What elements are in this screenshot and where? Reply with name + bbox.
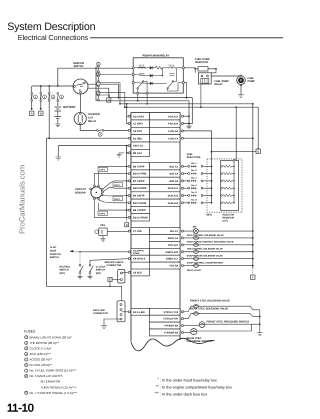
svg-text:VTPSWR B3: VTPSWR B3: [164, 331, 179, 334]
svg-text:NTSW: NTSW: [133, 252, 140, 255]
wire ECM FLR1 to injector supply bus: [183, 131, 211, 203]
relay right terminals: [182, 67, 184, 69]
wire ignition switch output A: [88, 84, 119, 97]
fuse 7: [96, 85, 98, 87]
svg-text:B14 CYP/M: B14 CYP/M: [133, 173, 146, 176]
svg-text:PCS A21: PCS A21: [168, 244, 179, 247]
node IGP1 terminal: [128, 115, 130, 117]
svg-text:No. 3: No. 3: [191, 177, 197, 180]
capacitor relay 2: [169, 74, 174, 76]
svg-text:B9 LG2: B9 LG2: [133, 152, 142, 155]
svg-text:Electrical Connections: Electrical Connections: [18, 33, 89, 42]
wire relay right mid terminal down to L1: [184, 83, 186, 98]
wire fuse 9 to ECM STS: [104, 129, 129, 131]
capacitor relay 1: [139, 74, 144, 76]
svg-text:B: B: [40, 111, 42, 115]
node K-LINE terminal: [128, 311, 130, 313]
wire SCS to ECM: [122, 271, 129, 273]
svg-text:FRONT VTEC PRESSURE SWITCH: FRONT VTEC PRESSURE SWITCH: [207, 321, 250, 324]
fuse number 8: [97, 91, 100, 94]
svg-text:2WBS A17: 2WBS A17: [166, 258, 179, 261]
svg-text:A26 LG1: A26 LG1: [133, 145, 144, 148]
svg-text:ALTERNATOR: ALTERNATOR: [41, 380, 62, 384]
ECM group3 right pin cells: [150, 228, 181, 235]
relay bottom terminals: [137, 92, 139, 94]
svg-text:CKP 1: CKP 1: [114, 198, 121, 201]
svg-text:POSITION: POSITION: [50, 253, 61, 256]
svg-text:: In the under-hood fuse/relay: : In the under-hood fuse/relay box: [160, 378, 217, 382]
svg-text:No. 1: No. 1: [191, 162, 197, 165]
svg-text:MIL A7: MIL A7: [170, 230, 178, 233]
svg-text:C7 VSS: C7 VSS: [133, 230, 142, 233]
connector F at solenoid bus end: [252, 268, 254, 275]
wire starter signal ST: [80, 94, 82, 113]
wire fuse 6 output: [98, 83, 120, 104]
svg-text:F: F: [252, 275, 254, 279]
wire bus L4: [125, 106, 258, 108]
ground fuel pump: [240, 85, 242, 95]
svg-text:INJ3 A5: INJ3 A5: [169, 180, 178, 183]
relay coil 2: [169, 67, 176, 69]
node VTSOLF terminal: [181, 311, 183, 313]
svg-text:IG1: IG1: [80, 85, 83, 88]
svg-text:SWITCH: SWITCH: [60, 269, 69, 272]
wire bus L3: [120, 103, 253, 105]
svg-text:To A/T: To A/T: [50, 246, 57, 249]
resistor injector resistor element 6: [221, 202, 223, 204]
diode D3: [150, 82, 153, 85]
svg-text:INJ2 A3: INJ2 A3: [169, 173, 178, 176]
svg-text:No. 5 BACK-UP LIGHTS: No. 5 BACK-UP LIGHTS: [30, 374, 63, 378]
svg-text:VTSOLF F19: VTSOLF F19: [164, 311, 179, 314]
wire CKP2 pair: [103, 181, 129, 189]
ECM group4 right pin cells: [150, 308, 181, 315]
fuse number 9: [98, 132, 102, 136]
ECM group3 left pin cells: [131, 228, 150, 235]
node PG2-A24 terminal: [181, 122, 183, 124]
svg-text:(M/T): (M/T): [207, 214, 213, 217]
motor fuel pump: [237, 76, 246, 85]
ECM group4 left pin cell D4 K-LINE: [131, 308, 150, 315]
svg-text:PRESSURE SWITCH: PRESSURE SWITCH: [187, 340, 212, 343]
svg-text:PG2 A10: PG2 A10: [168, 115, 179, 118]
svg-text:VTSOLR F20: VTSOLR F20: [163, 318, 178, 321]
diode D1: [150, 66, 153, 69]
svg-text:RESISTOR: RESISTOR: [223, 217, 235, 220]
fuse number 3: [51, 95, 55, 99]
svg-text:THL MOTOR (20 A)/**: THL MOTOR (20 A)/**: [30, 341, 60, 345]
label CYP 2: [98, 211, 107, 215]
wire fuse 8 output feeds bus L1: [98, 95, 118, 98]
svg-text:INJ4 A14: INJ4 A14: [168, 187, 179, 190]
svg-text:(M/T): (M/T): [60, 272, 66, 275]
wire ignition feed to PGM-FI relay: [58, 68, 133, 86]
node INJ3 terminal: [181, 180, 183, 182]
IC U1 ECM engine control module box: [131, 113, 180, 342]
svg-text:No. 2 FUEL PUMP SRS2 (15 A)/**: No. 2 FUEL PUMP SRS2 (15 A)/***: [30, 369, 78, 373]
wire interlock line to data link connector: [46, 286, 121, 301]
node solenoid terminal 3: [181, 251, 183, 253]
wire injector No. 1 leads: [183, 165, 187, 167]
ground power grounds PG: [188, 124, 190, 127]
svg-text:GEAR: GEAR: [50, 249, 57, 252]
ECM group2 right pin cells: [150, 163, 181, 170]
resistor injector resistor element 3: [221, 180, 223, 182]
svg-text:NEUTRAL: NEUTRAL: [60, 265, 72, 268]
label CKP 2: [113, 182, 122, 186]
connector shield 2P: [126, 219, 128, 223]
relay contact 2: [168, 82, 172, 87]
node LG1 terminal: [128, 145, 130, 147]
wire bus L2: [96, 100, 189, 102]
relay internal wires: [134, 67, 150, 69]
svg-text:PG2 A24: PG2 A24: [168, 123, 179, 126]
connector arrow A: [31, 108, 33, 110]
switch clutch switch MT: [90, 259, 129, 265]
node MTOLS terminal: [128, 258, 130, 260]
wire fuel pump relay output to pump: [211, 75, 241, 77]
wire injector supply branch to connector B: [212, 151, 257, 153]
node INJ1 terminal: [181, 165, 183, 167]
svg-text:ACG(S) (20 A)/**: ACG(S) (20 A)/**: [30, 358, 53, 362]
svg-text:No. 2: No. 2: [191, 169, 197, 172]
svg-text:CLUTCH: CLUTCH: [96, 265, 106, 268]
wire main ground line LG: [58, 145, 126, 147]
wire run to clutch-neutral interlock: [45, 138, 47, 286]
node INJ6 terminal: [181, 202, 183, 204]
svg-text:CLOCK (7.5 A)/*: CLOCK (7.5 A)/*: [30, 346, 53, 350]
fuse number 2: [43, 95, 47, 99]
connector 2P brown: [112, 279, 120, 281]
ground battery: [57, 118, 59, 124]
resistor inside relay: [156, 66, 163, 69]
wire injector No. 2 leads: [183, 173, 187, 175]
svg-text:BATTERY: BATTERY: [63, 106, 76, 109]
ECM group1 left pin cells: [131, 113, 150, 120]
fuse column feed bus: [95, 68, 97, 101]
wire ECM FLR2 to power vertical: [183, 137, 252, 139]
svg-text:FLR1 A6: FLR1 A6: [168, 130, 178, 133]
svg-text:TURN SIGNALS (15 A)/**+: TURN SIGNALS (15 A)/**+: [41, 385, 77, 389]
ground VSS: [102, 236, 104, 239]
resistor injector resistor box: [221, 160, 239, 210]
svg-text:SENSOR: SENSOR: [75, 191, 86, 194]
svg-text:INJECTOR: INJECTOR: [223, 214, 235, 217]
relay contact 1: [138, 82, 142, 87]
svg-text:PUMP: PUMP: [248, 80, 256, 83]
ground sensor shield: [126, 152, 128, 154]
svg-text:SHUT VALVE: SHUT VALVE: [187, 269, 201, 272]
svg-text:FRONT VTEC SOLENOID VALVE: FRONT VTEC SOLENOID VALVE: [190, 300, 230, 303]
fuse 5: [96, 65, 98, 67]
svg-text:SERVICE CHECK: SERVICE CHECK: [105, 261, 124, 264]
svg-text:B: B: [126, 223, 128, 227]
ground data link connector: [104, 319, 120, 326]
wire main power vertical to solenoid bus: [252, 104, 254, 268]
wire VSS to ECM: [107, 230, 129, 232]
svg-text:DATA LINK: DATA LINK: [93, 309, 105, 312]
svg-text:D1 VBU: D1 VBU: [133, 137, 142, 140]
svg-text:ACG (120 A)/***: ACG (120 A)/***: [30, 352, 52, 356]
svg-text:B5 CYP2/P: B5 CYP2/P: [133, 209, 146, 212]
svg-text:D4 K-LINE: D4 K-LINE: [133, 311, 145, 314]
node SCS terminal: [128, 271, 130, 273]
wire fuse 5 output: [98, 73, 132, 75]
svg-text:11-10: 11-10: [7, 403, 34, 415]
wire L4 drop to injector resistor: [235, 107, 237, 159]
node VTSOLR terminal: [181, 318, 183, 320]
svg-text:ESOL A4: ESOL A4: [168, 237, 179, 240]
wire L2 drop to ECM PG right side: [188, 101, 190, 124]
svg-text:SWITCH: SWITCH: [96, 269, 105, 272]
svg-text:C1 IGP2: C1 IGP2: [133, 123, 143, 126]
svg-text:B15 CKP/M: B15 CKP/M: [133, 187, 146, 190]
resistor injector resistor element 4: [221, 187, 223, 189]
wire relay bottom terminal 2 to bus L3: [146, 94, 148, 104]
svg-text:FUSES: FUSES: [24, 330, 36, 334]
fuse number 6: [97, 72, 100, 75]
svg-text:B6 CYP/P: B6 CYP/P: [133, 165, 145, 168]
node solenoid terminal 4: [181, 258, 183, 260]
wire L3-L4 drop to ECM IGP1 IGP2: [127, 104, 130, 124]
svg-text:SWITCH: SWITCH: [50, 256, 59, 259]
wire fuse 7 output: [98, 92, 124, 107]
svg-text:ProCarManuals.com: ProCarManuals.com: [18, 165, 27, 234]
svg-text:A: A: [31, 111, 33, 115]
svg-text:(M/T): (M/T): [96, 272, 102, 275]
node VTPSWR terminal: [181, 331, 183, 333]
svg-text:RELAY: RELAY: [88, 120, 97, 123]
wire fuel pump relay coil to bus L4: [200, 84, 202, 107]
wire injector No. 3 leads: [183, 180, 187, 182]
svg-text:INJECTORS: INJECTORS: [187, 156, 201, 159]
node solenoid terminal 5: [181, 265, 183, 267]
svg-text:C6 SCS: C6 SCS: [133, 271, 142, 274]
solenoid valve EVAP PURGE CONTROL SOLENOID VALVE: [183, 244, 252, 246]
svg-text:VSS: VSS: [100, 224, 105, 227]
resistor injector resistor element 2: [221, 173, 223, 175]
ECM bottom wavy break edge: [131, 338, 215, 350]
svg-text:No. 7 STARTER SIGNAL (7.5 A)/*: No. 7 STARTER SIGNAL (7.5 A)/***: [30, 391, 78, 395]
svg-text:EGR CONTROL SOLENOID VALVE: EGR CONTROL SOLENOID VALVE: [187, 234, 224, 237]
wire resistor to junction: [208, 68, 216, 70]
wire starter cut relay to fuse 9: [80, 125, 96, 131]
resistor injector resistor element 1: [221, 166, 223, 168]
ground VTEC circuits: [259, 310, 261, 333]
ECM group2 left pin cells: [131, 163, 150, 170]
svg-text:System Description: System Description: [7, 21, 95, 33]
svg-text:IABCS A20: IABCS A20: [165, 251, 178, 254]
svg-text:: In the under-dash fuse box: : In the under-dash fuse box: [160, 393, 207, 397]
svg-text:INJ1 A1: INJ1 A1: [169, 165, 178, 168]
svg-text:A13 IGP1: A13 IGP1: [133, 115, 145, 118]
svg-text:CYP 2: CYP 2: [99, 213, 106, 216]
fuse number 4: [60, 95, 64, 99]
svg-text:: In the engine compartment fu: : In the engine compartment fuse/relay b…: [160, 386, 232, 390]
node INJ2 terminal: [181, 173, 183, 175]
wire sensor shield bus: [126, 146, 128, 219]
label CYP 1: [98, 167, 107, 171]
node solenoid terminal 2: [181, 244, 183, 246]
svg-text:FLR2 F4: FLR2 F4: [168, 137, 178, 140]
label CKP 1: [113, 196, 122, 200]
fuse number 5: [97, 62, 100, 65]
wire ignition switch output B: [88, 88, 109, 98]
connector B fuel feed: [256, 149, 260, 153]
svg-text:***: ***: [154, 392, 159, 396]
solenoid valve EVAP CONTROL CANISTER/VENT: [183, 265, 252, 267]
wire ATFPN line with arrow: [70, 250, 74, 252]
node INJ5 terminal: [181, 194, 183, 196]
relay coil 1: [139, 67, 146, 69]
svg-text:VSV A8: VSV A8: [169, 265, 178, 268]
node PG2-A10 terminal: [181, 115, 183, 117]
node ATFPN terminal: [128, 251, 130, 253]
svg-text:EVAP BYPASS SOLENOID VALVE: EVAP BYPASS SOLENOID VALVE: [187, 254, 223, 257]
wire injector No. 4 leads: [183, 187, 187, 189]
heading rule: [90, 37, 283, 39]
wire CYP2 pair: [94, 200, 129, 218]
fuse 4 main fuse on battery feed: [57, 93, 59, 95]
ground ECM logic ground: [57, 146, 59, 157]
wire main relay to fuel pump resistor: [184, 68, 198, 69]
svg-text:IAB CONTROL SOLENOID VALVE: IAB CONTROL SOLENOID VALVE: [187, 248, 223, 251]
node INJ4 terminal: [181, 187, 183, 189]
wire K-line to ECM: [122, 311, 129, 313]
fuse 6: [96, 75, 98, 77]
fuse 9: [97, 130, 99, 132]
fuse number 7: [97, 82, 100, 85]
wire CKP1 pair: [103, 195, 129, 198]
svg-text:MIL: MIL: [193, 225, 198, 228]
node FLR1 terminal: [181, 130, 183, 132]
svg-text:CYP 1: CYP 1: [99, 169, 106, 172]
wire L4 end drop to connector B: [257, 107, 259, 149]
switch neutral switch MT: [79, 252, 81, 265]
ECM group1 right pin cells: [150, 113, 181, 120]
node VBU terminal: [128, 137, 130, 139]
svg-text:B4 CKF/P: B4 CKF/P: [133, 194, 145, 197]
starter cut relay: [74, 113, 86, 125]
svg-text:RELAY: RELAY: [214, 83, 223, 86]
fuse 3 branch to ECM VBU: [48, 86, 50, 138]
ground neutral switch: [79, 273, 81, 276]
svg-text:REAR VTEC SOLENOID VALVE: REAR VTEC SOLENOID VALVE: [190, 308, 229, 311]
solenoid valve IAB CONTROL SOLENOID VALVE: [183, 251, 252, 253]
relay fuel pump relay: [198, 73, 211, 84]
relay left terminals: [132, 67, 134, 69]
ground clutch switch: [89, 273, 91, 276]
svg-text:RESISTOR: RESISTOR: [195, 61, 208, 64]
connector arrow B: [40, 108, 42, 110]
node sensor row terminals: [128, 165, 130, 167]
wire injector No. 5 leads: [183, 195, 187, 197]
svg-text:EVAP CONTROL CANISTER/VENT: EVAP CONTROL CANISTER/VENT: [187, 261, 224, 264]
svg-text:EVAP PURGE CONTROL SOLENOID VA: EVAP PURGE CONTROL SOLENOID VALVE: [187, 241, 234, 244]
node VSS terminal: [128, 230, 130, 232]
fuse 1 branch: [31, 86, 33, 109]
node LG2 terminal: [128, 152, 130, 154]
svg-text:VTPSWF B2: VTPSWF B2: [164, 325, 179, 328]
node MIL terminal: [181, 230, 183, 232]
solenoid valve EGR CONTROL SOLENOID VALVE: [183, 237, 252, 239]
svg-text:B7 CKP/P: B7 CKP/P: [133, 180, 145, 183]
svg-text:No. 4: No. 4: [191, 184, 197, 187]
node FLR2 terminal: [181, 137, 183, 139]
svg-text:CKP 2: CKP 2: [114, 184, 121, 187]
svg-text:C4 STS: C4 STS: [133, 130, 142, 133]
svg-text:B: B: [109, 278, 111, 282]
svg-text:CONNECTOR: CONNECTOR: [93, 312, 108, 315]
wire relay bottom terminal 1 to bus L2: [137, 94, 139, 101]
wire bus L1: [118, 97, 192, 99]
svg-text:CONNECTOR: CONNECTOR: [107, 264, 122, 267]
wire battery bus: [32, 85, 73, 87]
svg-text:SWITCH: SWITCH: [74, 65, 84, 68]
wire injector resistor common bus: [233, 161, 235, 203]
svg-text:C8 MTOLS: C8 MTOLS: [133, 258, 146, 261]
svg-text:No. 5: No. 5: [191, 191, 197, 194]
node VTPSWF terminal: [181, 325, 183, 327]
svg-text:(A/T): (A/T): [223, 220, 228, 223]
svg-text:INJ5 A15: INJ5 A15: [168, 194, 179, 197]
resistor injector resistor element 5: [221, 195, 223, 197]
wire VBU line to ECM: [46, 137, 129, 139]
svg-text:B13 CYP2/M: B13 CYP2/M: [133, 216, 148, 219]
svg-text:**: **: [156, 385, 159, 389]
svg-text:PGM-FI MAIN RELAY: PGM-FI MAIN RELAY: [143, 55, 170, 58]
svg-text:B: B: [257, 149, 259, 153]
solenoid valve EVAP BYPASS SOLENOID VALVE: [183, 258, 252, 260]
fuse number 1: [34, 95, 38, 99]
svg-text:No. 6: No. 6: [191, 198, 197, 201]
fuse 8: [96, 94, 98, 96]
wire L1 drop to ECM PG2 row2: [183, 98, 192, 124]
svg-text:D4 ATFPN: D4 ATFPN: [133, 249, 144, 252]
diode D2: [150, 74, 153, 77]
node STS terminal: [128, 129, 130, 131]
node solenoid terminal 1: [181, 237, 183, 239]
wire CYP1 pair: [99, 166, 130, 185]
svg-text:BRAKE LIGHTS HORN (20 A)/*: BRAKE LIGHTS HORN (20 A)/*: [30, 335, 73, 339]
fuse 2 branch: [40, 86, 42, 109]
battery: [57, 101, 59, 106]
wire injector No. 6 leads: [183, 202, 187, 204]
svg-text:IG COIL (30 A)/**: IG COIL (30 A)/**: [30, 363, 54, 367]
connector box 4 on ignition output: [107, 98, 111, 102]
svg-text:INJ6 A16: INJ6 A16: [168, 202, 179, 205]
svg-text:B12 CKF/M: B12 CKF/M: [133, 202, 146, 205]
node IGP2 terminal: [128, 122, 130, 124]
